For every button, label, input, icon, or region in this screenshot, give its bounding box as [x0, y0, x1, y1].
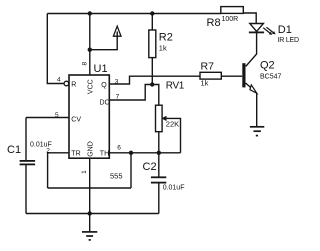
wire pin 3 output to R7: [109, 76, 200, 84]
wire RV1 wiper to TH line: [165, 118, 180, 152]
wire pin2-pin6 link: [48, 187, 131, 189]
wire C1 top lead: [25, 118, 27, 161]
capacitor C1: [20, 161, 35, 165]
wire top VCC rail: [47, 13, 221, 15]
junction node pin 8 / power arrow: [88, 48, 92, 52]
wire left rail to pin 4: [47, 14, 64, 84]
transistor Q2 BC547: [242, 63, 256, 93]
svg-text:1k: 1k: [201, 79, 209, 88]
wire pin 7 to R2/RV1 node: [109, 85, 152, 101]
power symbol arrow: [113, 26, 121, 36]
svg-text:0.01uF: 0.01uF: [163, 184, 185, 191]
svg-text:GND: GND: [87, 141, 94, 157]
junction node top rail / pin 8: [88, 11, 92, 15]
wire Q2 emitter to ground: [256, 93, 258, 126]
svg-text:100R: 100R: [222, 16, 239, 23]
wire R2 top lead: [151, 14, 153, 31]
wire bottom ground rail: [26, 213, 159, 215]
wire R7 right lead to Q2 base: [221, 75, 242, 77]
op-amp U1 555 timer body: [69, 75, 109, 158]
wire C1 bottom lead to bottom rail: [25, 165, 27, 214]
svg-text:8: 8: [81, 62, 88, 66]
svg-text:555: 555: [110, 172, 123, 181]
svg-text:DC: DC: [100, 100, 110, 107]
wire pin 5 CV stub: [26, 117, 69, 119]
wire C2 top lead: [158, 153, 160, 177]
wire pin 8 from top rail: [89, 14, 91, 76]
svg-text:C1: C1: [7, 144, 21, 156]
resistor R2: [149, 30, 156, 58]
wire R2 bottom lead: [151, 58, 153, 85]
resistor R7: [200, 72, 221, 79]
svg-text:Q: Q: [101, 82, 107, 89]
svg-text:R: R: [71, 82, 76, 89]
junction node R2 / pin7 / RV1: [150, 82, 154, 86]
svg-text:D1: D1: [278, 24, 292, 36]
svg-text:0.01uF: 0.01uF: [30, 141, 52, 148]
wire pin 6 TH line: [109, 152, 180, 154]
junction node TH line / loop: [129, 151, 133, 155]
wire C2 bottom lead: [158, 183, 160, 214]
wire D1 cathode to Q2 collector: [246, 32, 257, 66]
wire R8 right lead to D1: [243, 13, 256, 24]
svg-text:IR LED: IR LED: [278, 37, 300, 44]
svg-text:22K: 22K: [166, 120, 179, 129]
svg-text:U1: U1: [94, 63, 108, 75]
svg-text:TR: TR: [71, 151, 80, 158]
svg-text:6: 6: [117, 145, 121, 152]
junction node bottom rail / ground: [88, 211, 92, 215]
pin 4 bubble: [64, 81, 69, 86]
svg-text:RV1: RV1: [166, 81, 185, 92]
wire TH loop down: [130, 153, 132, 188]
svg-text:C2: C2: [143, 161, 157, 173]
RV1 wiper arrow: [162, 116, 167, 121]
svg-text:TH: TH: [100, 151, 109, 158]
svg-text:1k: 1k: [159, 44, 167, 53]
svg-text:2: 2: [46, 147, 50, 154]
svg-text:VCC: VCC: [87, 79, 94, 94]
svg-text:1: 1: [81, 170, 88, 174]
ground symbol under pin 1: [82, 232, 97, 240]
wire RV1 bottom lead: [158, 132, 160, 153]
svg-text:R2: R2: [159, 32, 173, 44]
svg-text:3: 3: [115, 78, 119, 85]
wire power arrow branch: [90, 32, 117, 50]
svg-text:CV: CV: [71, 116, 81, 123]
svg-text:7: 7: [116, 94, 120, 101]
svg-text:R7: R7: [201, 61, 215, 73]
D1 emission arrows: [263, 27, 275, 35]
svg-text:Q2: Q2: [260, 60, 275, 72]
wire pin 1 to ground: [89, 158, 91, 232]
wire RV1 top lead: [152, 85, 159, 106]
svg-text:R8: R8: [207, 17, 221, 29]
junction node top rail / R2: [150, 11, 154, 15]
svg-text:5: 5: [55, 112, 59, 119]
svg-text:BC547: BC547: [260, 74, 282, 81]
resistor R8: [221, 7, 244, 14]
capacitor C2: [151, 177, 166, 182]
junction node TH line / RV1 / C2: [157, 151, 161, 155]
potentiometer RV1: [156, 105, 163, 132]
diode D1 IR LED: [249, 24, 264, 33]
svg-text:4: 4: [57, 76, 61, 83]
ground symbol under Q2 emitter: [250, 127, 264, 136]
wire pin 2 TR loop: [48, 153, 69, 188]
